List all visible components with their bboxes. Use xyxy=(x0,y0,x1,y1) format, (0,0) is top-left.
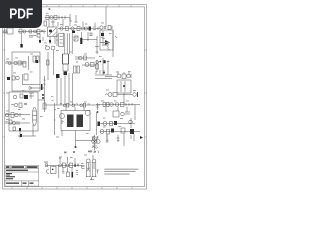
svg-text:PDF: PDF xyxy=(9,6,33,23)
